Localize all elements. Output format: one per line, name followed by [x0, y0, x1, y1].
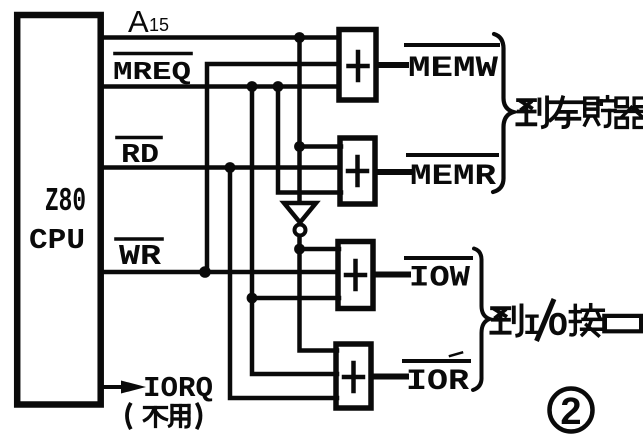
- svg-text:IOR: IOR: [406, 365, 469, 399]
- svg-text:MEMR: MEMR: [410, 160, 496, 194]
- svg-text:Z80: Z80: [45, 183, 86, 220]
- svg-text:MEMW: MEMW: [408, 52, 498, 86]
- svg-text:O: O: [548, 308, 568, 345]
- svg-text:CPU: CPU: [29, 224, 85, 257]
- svg-text:IOW: IOW: [409, 262, 470, 296]
- svg-text:15: 15: [149, 15, 169, 35]
- svg-text:WR: WR: [119, 240, 162, 273]
- svg-text:2: 2: [560, 391, 581, 433]
- svg-text:RD: RD: [121, 141, 159, 171]
- svg-text:MREQ: MREQ: [113, 58, 191, 87]
- svg-text:IORQ: IORQ: [143, 372, 213, 405]
- svg-text:A: A: [128, 4, 149, 39]
